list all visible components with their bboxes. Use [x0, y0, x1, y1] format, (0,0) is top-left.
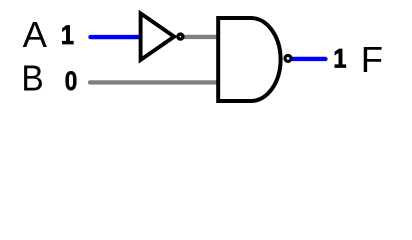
- svg-text:F: F: [361, 39, 383, 80]
- output wire (blue, logic 1) from NAND bubble to value label: [293, 57, 326, 61]
- svg-text:A: A: [23, 14, 48, 55]
- svg-text:1: 1: [333, 43, 346, 73]
- svg-text:0: 0: [65, 66, 78, 96]
- wire B (gray, logic 0) to NAND bottom input: [90, 80, 217, 84]
- NAND output bubble: [285, 55, 291, 61]
- NAND gate U2 body: [218, 18, 280, 101]
- svg-text:B: B: [21, 58, 43, 99]
- wire A (blue, logic 1) from value label to inverter input: [91, 35, 141, 39]
- inverter U1 (NOT gate triangle): [141, 13, 175, 60]
- wire inverter output to NAND top input (gray): [184, 35, 218, 39]
- inverter output bubble: [178, 34, 183, 39]
- svg-text:1: 1: [61, 20, 74, 50]
